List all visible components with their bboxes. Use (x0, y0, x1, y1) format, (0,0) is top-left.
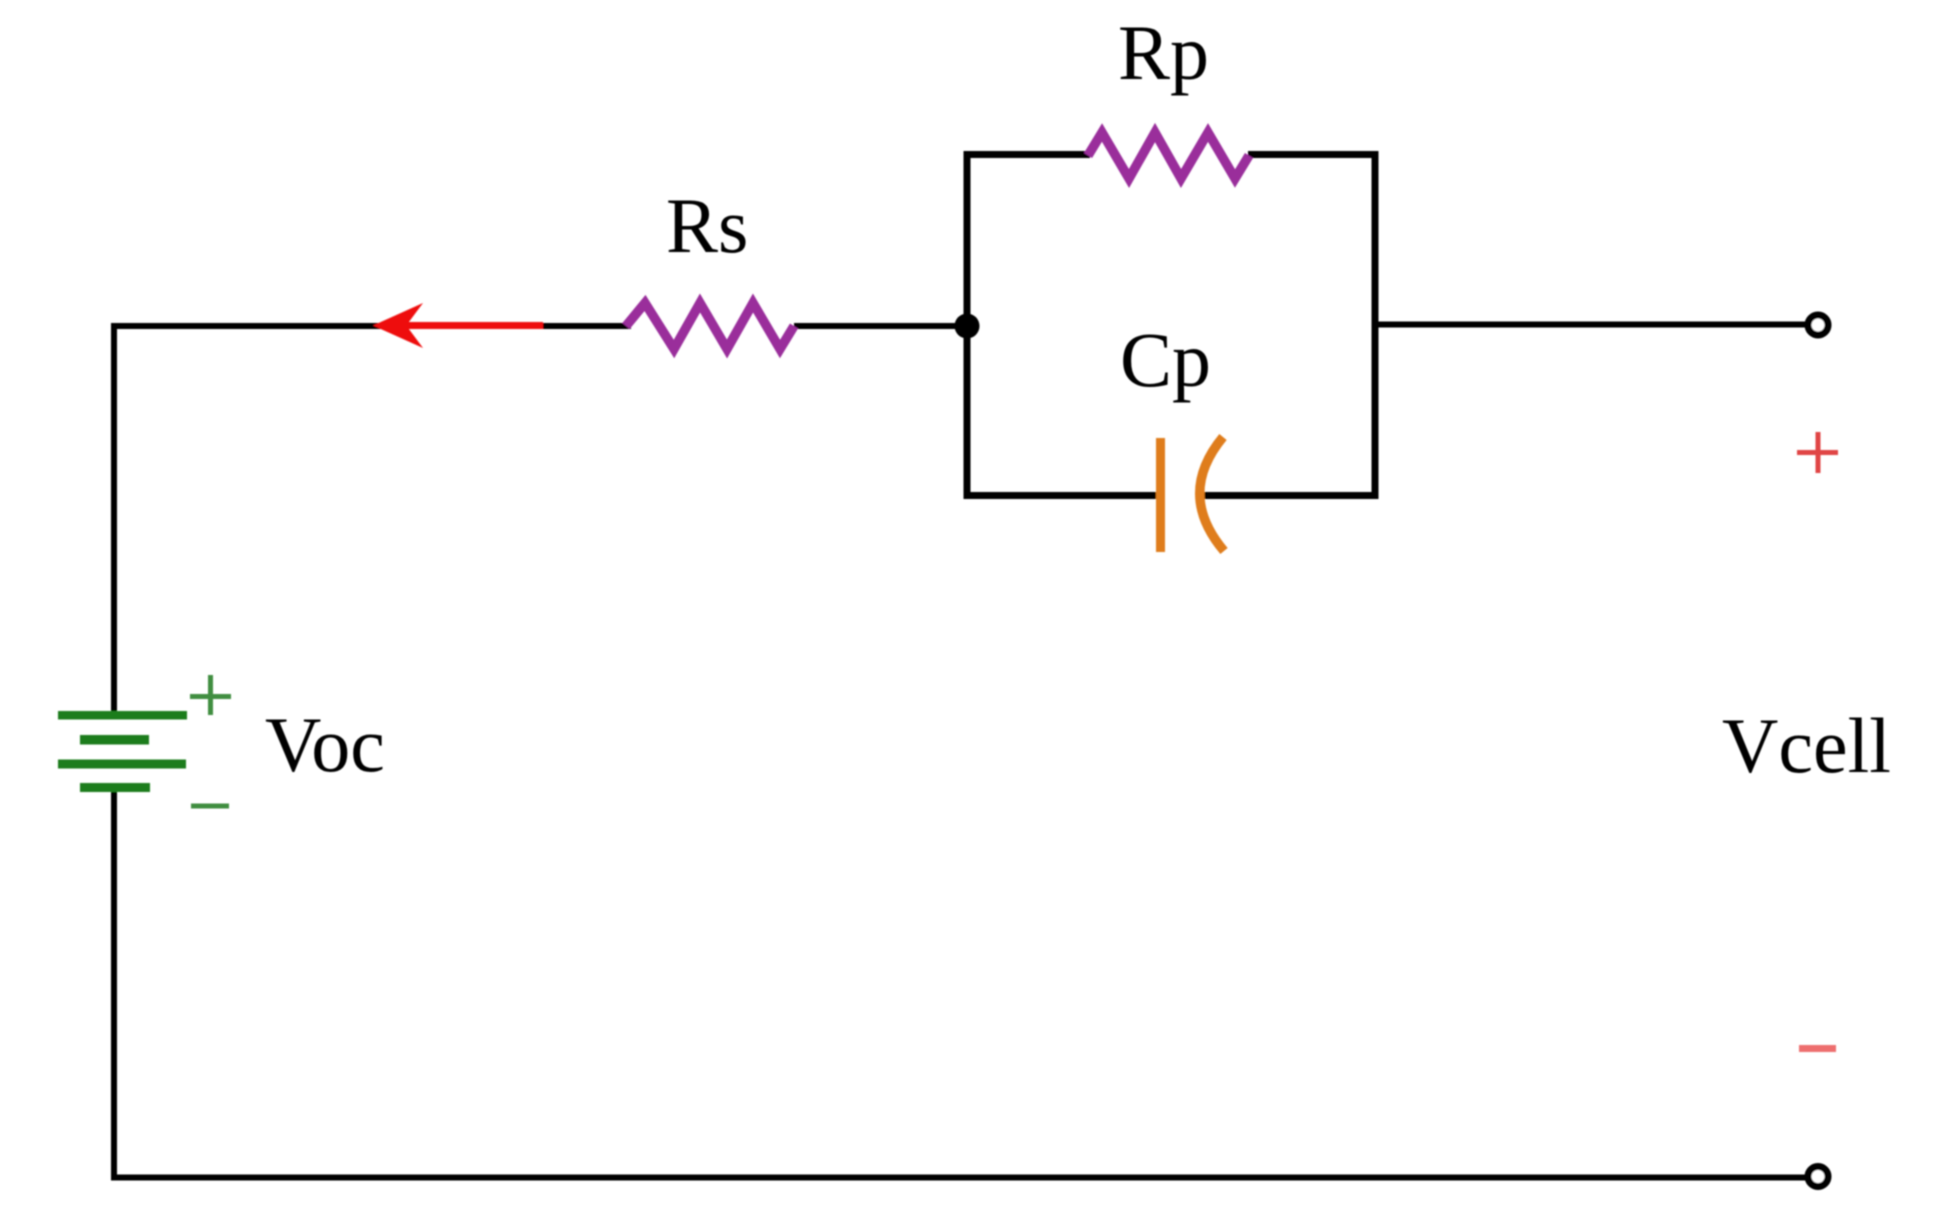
wire box top-left segment (964, 151, 1091, 158)
wire bottom loop (114, 792, 1809, 1178)
resistor Rp (purple zigzag) (1088, 133, 1249, 179)
current arrow (red) (373, 303, 543, 348)
svg-text:Rp: Rp (1118, 9, 1209, 96)
resistor Rs (purple zigzag) (626, 303, 794, 349)
svg-text:Voc: Voc (265, 701, 385, 788)
wire parallel-box left vertical (964, 151, 971, 499)
wire Rs to junction node (794, 323, 967, 329)
node junction dot (955, 314, 980, 339)
battery minus sign (green) (191, 804, 229, 809)
wire box to positive terminal (1375, 322, 1809, 328)
wire parallel-box right vertical (1372, 151, 1379, 499)
svg-text:Rs: Rs (666, 182, 748, 269)
svg-text:Cp: Cp (1120, 316, 1211, 403)
battery plus sign (green) (190, 675, 231, 715)
terminal circle negative (1808, 1167, 1828, 1187)
wire box bottom-right segment (1201, 492, 1379, 499)
Vcell plus sign (red) (1797, 432, 1838, 473)
battery Voc (green plates) (58, 711, 187, 792)
Vcell minus sign (red) (1799, 1045, 1836, 1052)
svg-text:Vcell: Vcell (1722, 702, 1891, 789)
terminal circle positive (1808, 315, 1828, 335)
wire top-left horizontal (Voc top to Rs) (114, 326, 631, 711)
wire box bottom-left segment (964, 492, 1157, 499)
capacitor Cp (orange plates) (1161, 437, 1225, 552)
wire box top-right segment (1248, 151, 1379, 158)
